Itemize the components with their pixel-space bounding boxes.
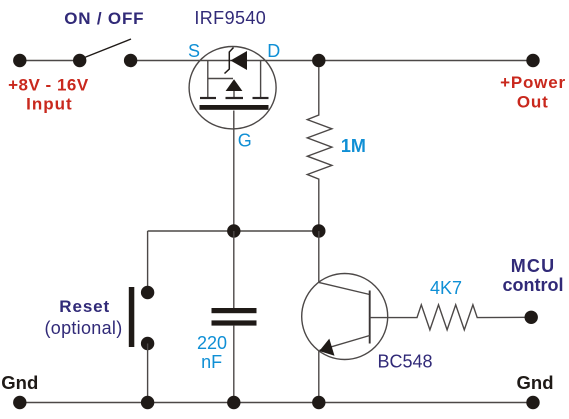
node ground emitter junction (312, 396, 325, 409)
diode D1 cathode bent bar (225, 48, 234, 74)
svg-text:S: S (188, 41, 200, 61)
node +Power Out terminal (526, 54, 539, 67)
wire bottom ground rail (20, 402, 533, 404)
switch S1 lever (85, 39, 132, 58)
transistor Q1 collector line (319, 282, 370, 294)
wire reset branch upper (147, 231, 149, 293)
switch S2 reset top contact (141, 286, 154, 299)
switch S1 pole dot (73, 54, 86, 67)
wire R1 to transistor collector (318, 231, 320, 282)
node +8V input terminal (13, 54, 26, 67)
switch S2 reset actuator bar (129, 287, 135, 347)
capacitor C1 top plate (212, 308, 257, 313)
svg-text:Gnd: Gnd (517, 372, 554, 393)
switch S2 reset bottom contact (141, 337, 154, 350)
svg-text:D: D (267, 41, 280, 61)
svg-text:Input: Input (26, 95, 73, 114)
svg-text:G: G (238, 131, 252, 151)
transistor U1 IRF9540 P-MOSFET body circle (189, 46, 276, 128)
svg-text:BC548: BC548 (377, 351, 432, 371)
transistor U1 substrate line (208, 78, 233, 80)
node ground capacitor junction (227, 396, 240, 409)
svg-text:+Power: +Power (500, 73, 566, 92)
capacitor C1 bottom plate (212, 320, 257, 325)
node ground right terminal (526, 396, 539, 409)
transistor U1 channel contact middle (226, 97, 244, 99)
wire reset branch lower (147, 344, 149, 403)
transistor Q1 BC548 body circle (302, 274, 388, 360)
wire MOSFET gate lead vertical (233, 111, 235, 232)
node ground reset junction (141, 396, 154, 409)
wire emitter to ground (318, 351, 320, 403)
transistor Q1 base bar (369, 291, 371, 344)
node gate/capacitor junction (227, 224, 240, 237)
svg-text:MCU: MCU (511, 256, 556, 276)
transistor Q1 emitter line (320, 336, 370, 351)
transistor Q1 emitter arrow (319, 339, 334, 356)
svg-text:Out: Out (517, 92, 549, 111)
svg-text:4K7: 4K7 (430, 278, 462, 298)
transistor U1 channel contact S (200, 97, 216, 99)
svg-text:220: 220 (197, 333, 227, 353)
transistor U1 substrate arrow stem (233, 91, 235, 98)
transistor U1 substrate arrow (226, 79, 243, 91)
node ground left terminal (13, 396, 26, 409)
diode D1 body diode triangle (231, 51, 248, 70)
wire capacitor lower lead (233, 326, 235, 403)
svg-text:control: control (503, 275, 564, 295)
node R1/collector junction (312, 224, 325, 237)
transistor U1 source vertical (207, 61, 209, 98)
transistor U1 gate bar (200, 105, 269, 110)
wire gate net horizontal (148, 230, 319, 232)
svg-text:ON / OFF: ON / OFF (64, 9, 144, 28)
transistor U1 channel contact D (253, 97, 269, 99)
resistor R1 1M with leads (307, 67, 332, 231)
svg-text:+8V - 16V: +8V - 16V (8, 75, 89, 94)
svg-text:Gnd: Gnd (1, 372, 38, 393)
wire top rail left segment (20, 60, 80, 62)
switch S1 throw dot (124, 54, 137, 67)
svg-text:Reset: Reset (59, 297, 110, 316)
svg-text:1M: 1M (341, 136, 366, 156)
node drain junction (312, 54, 325, 67)
transistor U1 drain vertical (260, 61, 262, 98)
resistor R2 4K7 with leads (370, 305, 532, 330)
svg-text:nF: nF (201, 352, 222, 372)
wire capacitor upper lead (233, 231, 235, 308)
node MCU control terminal (525, 311, 538, 324)
wire top rail from switch to +Power Out (131, 60, 533, 62)
svg-text:(optional): (optional) (44, 318, 122, 338)
svg-text:IRF9540: IRF9540 (194, 8, 266, 28)
